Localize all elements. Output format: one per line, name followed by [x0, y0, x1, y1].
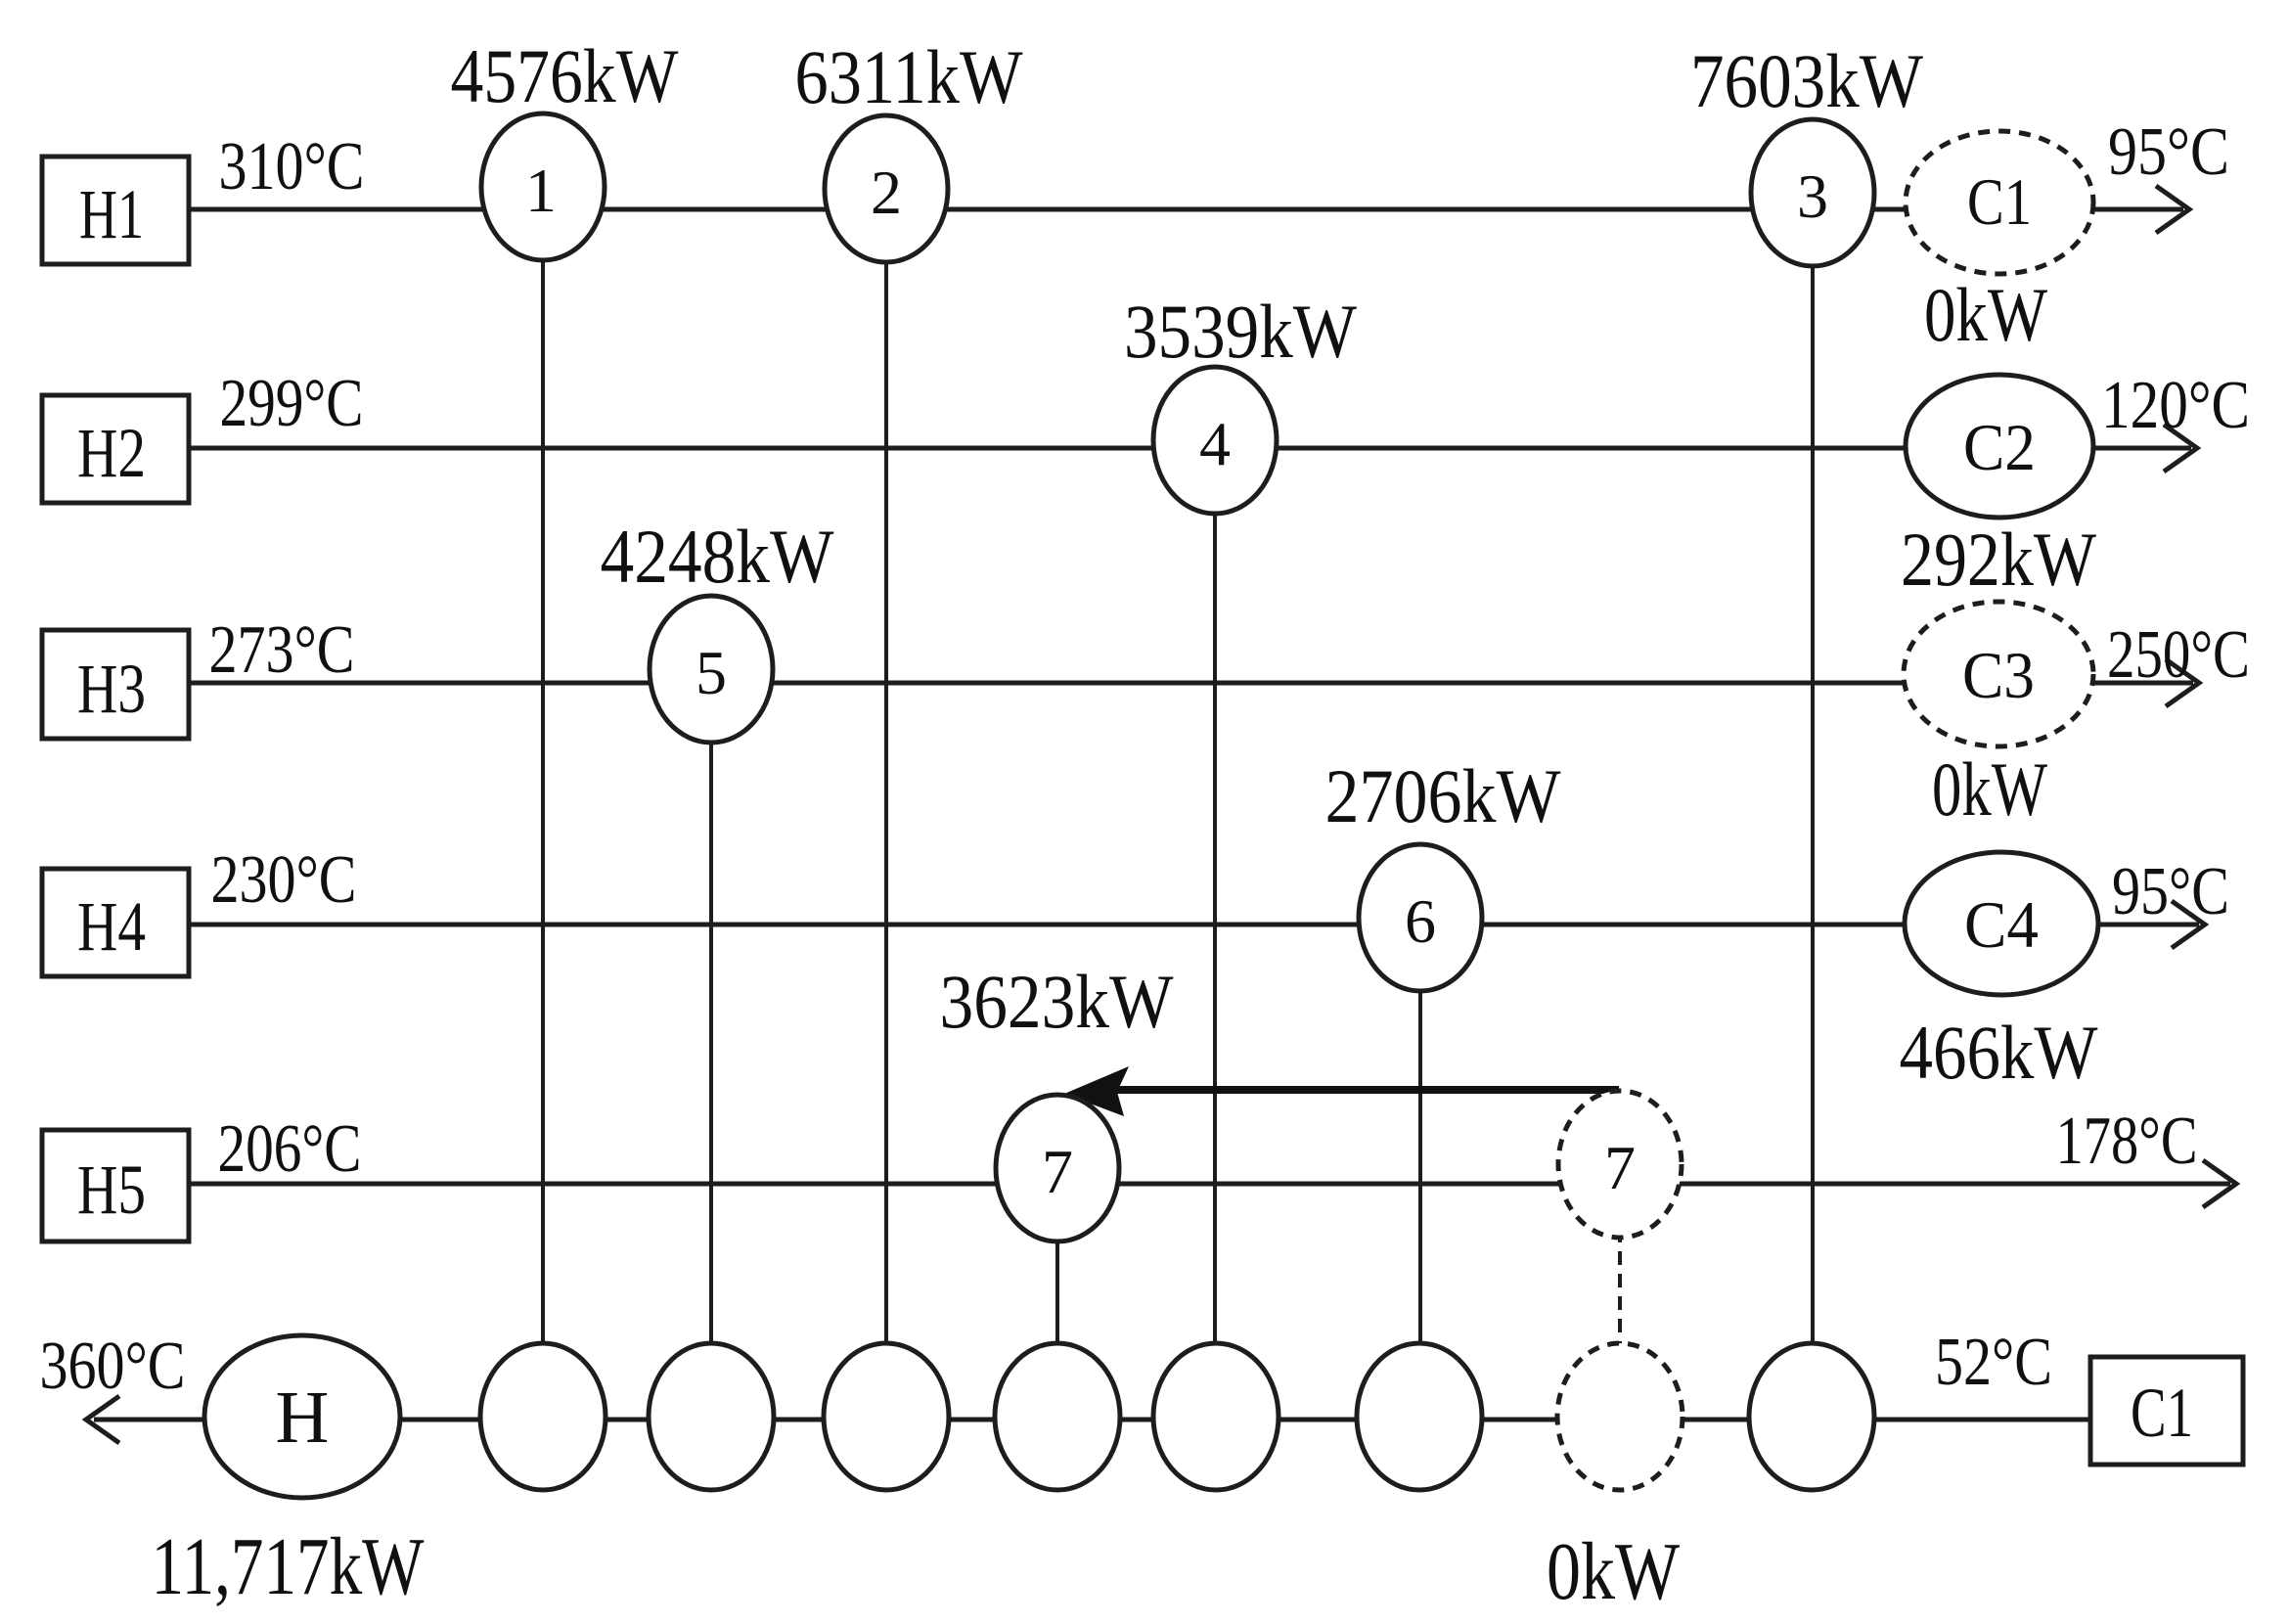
- bottom match below exchanger 2: [824, 1343, 949, 1490]
- wire H5 stream line: [189, 1182, 2230, 1187]
- svg-text:0kW: 0kW: [1924, 272, 2047, 357]
- box H3: [42, 630, 189, 739]
- svg-text:4576kW: 4576kW: [451, 33, 679, 118]
- wire H3 stream line: [189, 681, 2193, 686]
- svg-text:3623kW: 3623kW: [940, 959, 1174, 1044]
- arrow H3 outlet 250C: [2166, 659, 2199, 706]
- exchanger 4: [1153, 367, 1277, 514]
- arrow exchanger 7 relocation 3623kW: [1064, 1066, 1619, 1116]
- svg-text:7: 7: [1042, 1137, 1073, 1206]
- box H4: [42, 869, 189, 976]
- bottom match dashed below exchanger 7 alt: [1557, 1343, 1683, 1490]
- wire vertical exchanger 2: [884, 209, 888, 1420]
- svg-text:273°C: 273°C: [209, 612, 355, 688]
- exchanger 7: [996, 1095, 1119, 1241]
- svg-text:C4: C4: [1964, 887, 2039, 962]
- svg-text:5: 5: [696, 638, 727, 707]
- svg-text:0kW: 0kW: [1547, 1526, 1681, 1617]
- wire vertical exchanger 1: [541, 209, 545, 1420]
- exchanger 7 alternate dashed: [1558, 1091, 1682, 1238]
- wire vertical exchanger 4: [1213, 448, 1217, 1420]
- wire H4 stream line: [189, 923, 2199, 927]
- bottom match below exchanger 4: [1153, 1343, 1279, 1490]
- exchanger 6: [1359, 844, 1482, 991]
- exchanger 2: [825, 115, 948, 262]
- wire H2 stream line: [189, 446, 2191, 451]
- svg-text:360°C: 360°C: [40, 1329, 186, 1404]
- svg-text:178°C: 178°C: [2056, 1104, 2198, 1179]
- arrow H5 outlet 178C: [2203, 1160, 2236, 1207]
- bottom match below exchanger 1: [480, 1343, 606, 1490]
- arrow H1 outlet 95C: [2156, 186, 2189, 233]
- box H5: [42, 1130, 189, 1241]
- svg-text:250°C: 250°C: [2107, 617, 2250, 693]
- svg-text:7: 7: [1604, 1133, 1636, 1202]
- svg-text:230°C: 230°C: [211, 842, 357, 918]
- svg-text:206°C: 206°C: [218, 1111, 362, 1187]
- svg-text:120°C: 120°C: [2101, 368, 2250, 443]
- cooler C4: [1905, 852, 2098, 995]
- box C1 inlet: [2090, 1357, 2243, 1465]
- bottom match below exchanger 6: [1357, 1343, 1482, 1490]
- svg-text:H2: H2: [77, 414, 146, 492]
- svg-text:C2: C2: [1963, 410, 2036, 484]
- arrow H4 outlet 95C: [2172, 901, 2205, 948]
- svg-text:H: H: [276, 1376, 330, 1459]
- wire dashed vertical exchanger 7 alt: [1618, 1184, 1622, 1420]
- wire vertical exchanger 7: [1055, 1184, 1059, 1420]
- svg-text:C3: C3: [1962, 638, 2035, 712]
- arrow H2 outlet 120C: [2164, 425, 2197, 472]
- heater H: [204, 1335, 400, 1498]
- svg-text:3: 3: [1797, 161, 1828, 231]
- cooler C3 dashed: [1904, 602, 2093, 746]
- svg-text:0kW: 0kW: [1932, 746, 2047, 832]
- svg-text:H4: H4: [77, 887, 146, 966]
- svg-text:11,717kW: 11,717kW: [152, 1521, 426, 1612]
- exchanger 3: [1751, 119, 1874, 266]
- bottom match below exchanger 5: [649, 1343, 774, 1490]
- box H1: [42, 157, 189, 264]
- svg-text:466kW: 466kW: [1900, 1010, 2098, 1095]
- wire vertical exchanger 6: [1418, 925, 1422, 1420]
- svg-text:7603kW: 7603kW: [1690, 38, 1923, 123]
- exchanger 1: [481, 113, 605, 260]
- svg-text:95°C: 95°C: [2108, 114, 2229, 190]
- svg-text:3539kW: 3539kW: [1124, 289, 1357, 374]
- svg-text:310°C: 310°C: [219, 129, 365, 204]
- box H2: [42, 395, 189, 503]
- svg-text:4248kW: 4248kW: [601, 514, 834, 599]
- wire C1 cold stream bottom line: [94, 1418, 2090, 1422]
- svg-text:H1: H1: [79, 175, 144, 253]
- svg-text:H5: H5: [77, 1150, 146, 1229]
- svg-text:1: 1: [525, 156, 557, 225]
- cooler C2: [1906, 375, 2093, 518]
- wire vertical exchanger 3: [1811, 209, 1815, 1420]
- cooler C1 dashed: [1906, 131, 2093, 274]
- svg-text:299°C: 299°C: [220, 366, 364, 441]
- svg-text:52°C: 52°C: [1935, 1325, 2052, 1400]
- svg-text:95°C: 95°C: [2112, 854, 2229, 929]
- svg-text:6311kW: 6311kW: [795, 34, 1023, 119]
- arrow hot utility outlet 360C: [86, 1396, 119, 1443]
- svg-text:H3: H3: [77, 650, 146, 728]
- bottom match below exchanger 7: [995, 1343, 1120, 1490]
- svg-text:4: 4: [1199, 409, 1231, 478]
- svg-text:C1: C1: [1967, 164, 2032, 239]
- svg-text:292kW: 292kW: [1901, 517, 2096, 602]
- bottom match below exchanger 3: [1749, 1343, 1874, 1490]
- wire vertical exchanger 5: [709, 683, 713, 1420]
- svg-text:2: 2: [871, 158, 902, 227]
- svg-text:2706kW: 2706kW: [1325, 753, 1561, 838]
- wire H1 stream line: [189, 207, 2183, 212]
- svg-text:C1: C1: [2131, 1374, 2193, 1452]
- exchanger 5: [650, 596, 773, 743]
- svg-text:6: 6: [1405, 886, 1436, 956]
